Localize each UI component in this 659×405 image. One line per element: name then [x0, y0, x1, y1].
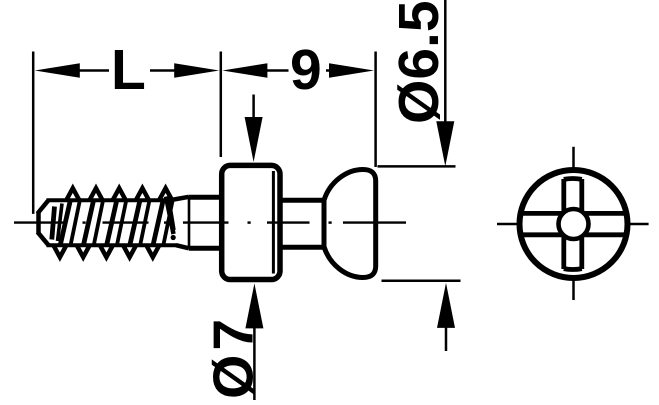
svg-text:L: L	[111, 38, 146, 102]
svg-text:Ø6.5: Ø6.5	[387, 0, 451, 124]
svg-text:Ø7: Ø7	[201, 315, 265, 399]
svg-text:9: 9	[290, 38, 322, 102]
